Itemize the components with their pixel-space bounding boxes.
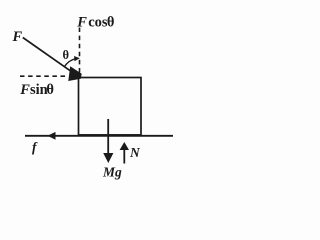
friction arrow f (pointing left along ground) xyxy=(48,132,56,140)
dashed vertical component line F cos θ xyxy=(79,28,81,78)
svg-text:N: N xyxy=(129,145,141,160)
dashed horizontal component line F sin θ xyxy=(20,75,66,77)
force F arrowhead at block corner xyxy=(68,66,81,81)
ground line xyxy=(25,135,173,137)
angle arc θ with arrowhead xyxy=(64,59,76,67)
force F line (from upper-left to block corner) xyxy=(23,38,71,71)
svg-text:Fsinθ: Fsinθ xyxy=(19,82,54,98)
weight arrow Mg (down) xyxy=(107,119,109,155)
svg-text:θ: θ xyxy=(63,48,70,62)
block M (square) xyxy=(79,78,142,135)
svg-text:F: F xyxy=(12,29,23,45)
svg-text:Mg: Mg xyxy=(102,165,122,180)
normal force arrow N (up) xyxy=(123,149,125,164)
svg-text:Fcosθ: Fcosθ xyxy=(76,14,114,30)
